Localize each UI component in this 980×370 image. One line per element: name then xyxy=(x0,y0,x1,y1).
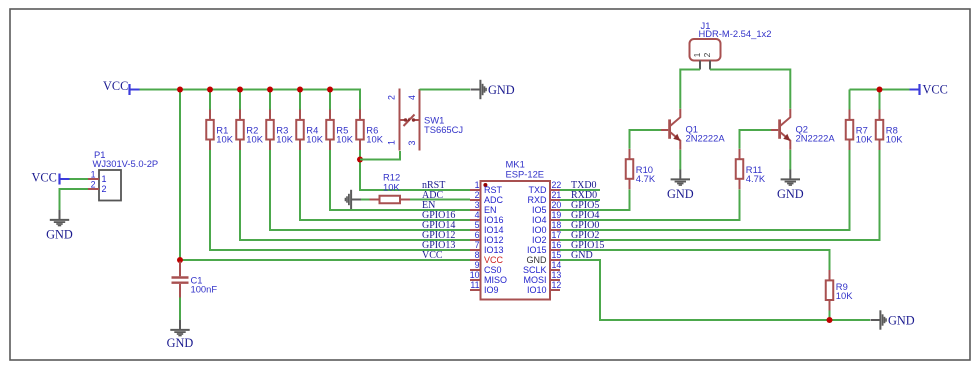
wire RXD0 stub xyxy=(560,199,600,201)
svg-text:TS665CJ: TS665CJ xyxy=(424,124,463,135)
svg-text:VCC: VCC xyxy=(923,83,948,97)
svg-text:GND: GND xyxy=(571,250,593,261)
svg-text:4.7K: 4.7K xyxy=(746,173,766,184)
svg-text:13: 13 xyxy=(552,270,562,280)
wire R4 to GPIO16 row xyxy=(300,150,470,220)
svg-text:RXD: RXD xyxy=(527,195,547,205)
wire R7 top xyxy=(849,90,851,110)
svg-text:VCC: VCC xyxy=(422,250,443,261)
svg-text:10K: 10K xyxy=(366,134,383,145)
wire GPIO5 to R10 xyxy=(560,190,630,211)
MK1 right pin stubs xyxy=(550,190,560,290)
resistor R10 xyxy=(626,149,656,190)
net port VCC right xyxy=(910,83,948,97)
connector J1 xyxy=(690,20,772,61)
svg-text:1: 1 xyxy=(692,52,702,57)
junction rail-R4 xyxy=(297,87,303,93)
svg-text:20: 20 xyxy=(552,200,562,210)
ground at Q2 emitter xyxy=(777,170,804,202)
ground below P1 xyxy=(46,210,73,242)
svg-text:WJ301V-5.0-2P: WJ301V-5.0-2P xyxy=(93,158,159,169)
ground bottom right xyxy=(871,310,915,329)
svg-text:GND: GND xyxy=(667,187,694,201)
resistor R3 xyxy=(266,110,293,151)
svg-text:2N2222A: 2N2222A xyxy=(686,133,726,144)
resistor R12 xyxy=(370,172,411,204)
svg-text:IO12: IO12 xyxy=(484,235,504,245)
wire R9 bottom xyxy=(829,311,831,321)
wire VCC row to MK1 xyxy=(180,259,470,261)
svg-text:IO5: IO5 xyxy=(532,205,547,215)
connector P1 xyxy=(88,149,158,201)
svg-text:ADC: ADC xyxy=(484,195,504,205)
wire SW1 pin1 branch xyxy=(360,151,400,160)
ground at Q1 emitter xyxy=(667,170,694,202)
junction rail-R5 xyxy=(327,87,333,93)
resistor R4 xyxy=(296,110,323,151)
svg-text:10K: 10K xyxy=(306,134,323,145)
wire C1 to ground xyxy=(179,298,181,321)
svg-text:10K: 10K xyxy=(836,290,853,301)
svg-text:3: 3 xyxy=(475,200,480,210)
wire VCC rail top xyxy=(140,90,361,110)
svg-text:22: 22 xyxy=(552,180,562,190)
MK1 left pin stubs xyxy=(470,190,481,290)
ground below C1 xyxy=(167,320,194,350)
svg-text:1: 1 xyxy=(91,170,96,180)
svg-text:IO10: IO10 xyxy=(527,285,547,295)
wire GPIO0 to R7 xyxy=(560,150,850,230)
wire R12 to ADC row xyxy=(410,199,470,201)
wire J1 pin2 to Q2 collector xyxy=(710,70,790,109)
MK1 right pin names xyxy=(523,185,547,295)
resistor R7 xyxy=(846,110,873,151)
svg-text:2: 2 xyxy=(387,95,397,100)
svg-text:11: 11 xyxy=(470,280,479,290)
svg-text:IO15: IO15 xyxy=(527,245,547,255)
wire R3 top xyxy=(269,90,271,110)
junction rail-R8 xyxy=(877,87,883,93)
svg-text:10K: 10K xyxy=(336,134,353,145)
svg-text:VCC: VCC xyxy=(103,79,128,93)
svg-text:IO0: IO0 xyxy=(532,225,547,235)
wire R3 to GPIO14 row xyxy=(270,150,470,230)
wire P1 pin2 to ground xyxy=(60,189,89,210)
MK1 left pin names xyxy=(484,185,507,295)
svg-text:10K: 10K xyxy=(276,134,293,145)
svg-text:MISO: MISO xyxy=(484,275,507,285)
svg-text:IO16: IO16 xyxy=(484,215,504,225)
MK1 left pin numbers 1-11 xyxy=(470,180,480,290)
wire R5 top xyxy=(329,90,331,110)
ground at R12 xyxy=(345,190,361,209)
svg-text:10K: 10K xyxy=(886,134,903,145)
svg-text:GND: GND xyxy=(888,314,915,328)
wire Q2 emitter to ground xyxy=(789,150,791,170)
wire R2 to GPIO12 row xyxy=(240,150,470,240)
resistor R8 xyxy=(876,110,903,151)
junction rail-R2 xyxy=(237,87,243,93)
svg-text:IO13: IO13 xyxy=(484,245,504,255)
net port VCC at P1 xyxy=(32,171,70,185)
wire R8 top xyxy=(879,90,881,110)
wire R4 top xyxy=(299,90,301,110)
svg-text:VCC: VCC xyxy=(484,255,504,265)
wire J1 pin1 to Q1 collector xyxy=(680,70,700,109)
svg-text:10: 10 xyxy=(470,270,480,280)
IC MK1 ESP-12E xyxy=(481,159,551,300)
svg-text:2: 2 xyxy=(702,52,712,57)
wire C1 column xyxy=(179,90,181,264)
svg-text:GND: GND xyxy=(46,228,73,242)
svg-text:1: 1 xyxy=(102,174,107,184)
svg-text:2: 2 xyxy=(102,184,107,194)
resistor R5 xyxy=(326,110,353,151)
wire GPIO2 to R8 xyxy=(560,150,880,240)
SW1 labels xyxy=(424,115,463,136)
transistor Q1 xyxy=(661,109,680,150)
svg-text:2: 2 xyxy=(91,180,96,190)
net port VCC top-left xyxy=(103,79,140,95)
svg-text:IO14: IO14 xyxy=(484,225,504,235)
wire GND pin to bottom rail xyxy=(560,260,870,320)
junction R9-bottom rail xyxy=(827,317,833,323)
svg-text:4: 4 xyxy=(407,95,417,100)
svg-text:EN: EN xyxy=(484,205,497,215)
MK1 right pin numbers 22-12 xyxy=(552,180,562,290)
svg-text:IO9: IO9 xyxy=(484,285,499,295)
svg-text:8: 8 xyxy=(475,250,480,260)
capacitor C1 xyxy=(172,262,218,298)
svg-text:ESP-12E: ESP-12E xyxy=(506,169,545,180)
junction C1-VCC row xyxy=(177,257,183,263)
svg-text:21: 21 xyxy=(552,190,562,200)
svg-text:1: 1 xyxy=(387,140,397,145)
svg-text:MOSI: MOSI xyxy=(523,275,546,285)
svg-text:RST: RST xyxy=(484,185,503,195)
transistor Q2 xyxy=(771,109,790,150)
svg-text:10K: 10K xyxy=(383,182,400,193)
wire SW1 pin4 to ground xyxy=(420,89,471,91)
svg-text:14: 14 xyxy=(552,260,562,270)
svg-text:GND: GND xyxy=(488,83,515,97)
svg-text:GND: GND xyxy=(777,187,804,201)
Q1 labels xyxy=(686,124,726,144)
junction R6-SW1 xyxy=(357,157,363,163)
svg-text:16: 16 xyxy=(552,240,562,250)
Q2 labels xyxy=(796,124,836,144)
junction rail-R3 xyxy=(267,87,273,93)
svg-text:2N2222A: 2N2222A xyxy=(796,133,836,144)
svg-text:TXD: TXD xyxy=(529,185,548,195)
wire R12 left xyxy=(361,199,370,201)
wire VCC to P1 pin1 xyxy=(70,178,89,180)
J1 pin stub 2 xyxy=(709,61,711,70)
wire GPIO4 to R11 xyxy=(560,190,740,221)
ground at SW1 pin4 xyxy=(471,80,515,99)
resistor R1 xyxy=(206,110,233,151)
wire R11 to Q2 base xyxy=(740,130,772,149)
svg-text:4.7K: 4.7K xyxy=(636,173,656,184)
svg-text:7: 7 xyxy=(475,240,480,250)
svg-text:18: 18 xyxy=(552,220,562,230)
svg-text:5: 5 xyxy=(475,220,480,230)
svg-text:GND: GND xyxy=(527,255,548,265)
svg-text:IO2: IO2 xyxy=(532,235,547,245)
svg-text:HDR-M-2.54_1x2: HDR-M-2.54_1x2 xyxy=(699,28,772,39)
resistor R11 xyxy=(736,149,766,190)
wire VCC rail right xyxy=(850,89,912,91)
svg-text:SCLK: SCLK xyxy=(523,265,547,275)
wire R2 top xyxy=(239,90,241,110)
wire R1 to GPIO13 row xyxy=(210,150,470,250)
svg-text:9: 9 xyxy=(475,260,480,270)
svg-text:10K: 10K xyxy=(246,134,263,145)
svg-text:GND: GND xyxy=(167,336,194,350)
switch SW1 xyxy=(400,89,420,151)
svg-text:VCC: VCC xyxy=(32,171,57,185)
svg-text:4: 4 xyxy=(475,210,480,220)
resistor R2 xyxy=(236,110,263,151)
resistor R9 xyxy=(826,270,853,311)
svg-text:17: 17 xyxy=(552,230,562,240)
svg-text:IO4: IO4 xyxy=(532,215,547,225)
junction rail-C1 xyxy=(177,87,183,93)
wire R1 top xyxy=(209,90,211,110)
svg-text:CS0: CS0 xyxy=(484,265,502,275)
wire Q1 emitter to ground xyxy=(679,150,681,170)
svg-text:19: 19 xyxy=(552,210,562,220)
svg-text:10K: 10K xyxy=(856,134,873,145)
svg-text:12: 12 xyxy=(552,280,562,290)
wire R6 to nRST row xyxy=(360,150,470,190)
svg-text:10K: 10K xyxy=(216,134,233,145)
resistor R6 xyxy=(356,110,383,151)
wire R5 to EN row xyxy=(330,150,470,210)
wire TXD0 stub xyxy=(560,189,600,191)
svg-text:3: 3 xyxy=(407,140,417,145)
J1 pin stub 1 xyxy=(699,61,701,70)
wire R10 to Q1 base xyxy=(630,130,662,149)
svg-text:2: 2 xyxy=(475,190,480,200)
wire GPIO15 to R9 xyxy=(560,250,830,270)
svg-text:6: 6 xyxy=(475,230,480,240)
svg-text:1: 1 xyxy=(475,180,480,190)
junction rail-R1 xyxy=(207,87,213,93)
svg-text:100nF: 100nF xyxy=(191,284,218,295)
svg-text:15: 15 xyxy=(552,250,562,260)
